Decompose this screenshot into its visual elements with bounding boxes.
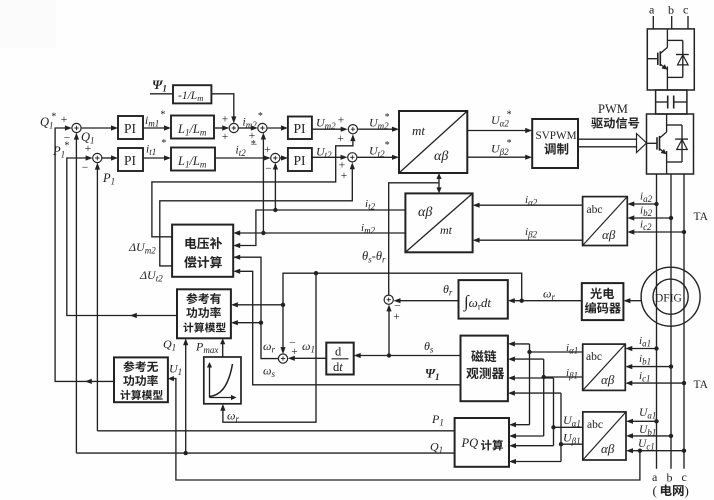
label it1* [146, 138, 166, 157]
wire Q1 feedback riser into S1 [74, 133, 79, 454]
label omega_1 [302, 339, 315, 355]
svg-text:PI: PI [124, 121, 137, 136]
label im2 measured [361, 222, 376, 236]
wire Ua2* to SVPWM [467, 128, 532, 133]
wire U_beta1 to observer and PQ [508, 391, 583, 465]
svg-text:b: b [667, 471, 673, 485]
wire DFIG to encoder [623, 298, 641, 303]
node Uc1 tap [682, 449, 686, 453]
wire rotor phase line b vertical [670, 174, 672, 469]
node Ua1 tap [654, 419, 658, 423]
wire i_alpha1 to observer and PQ [508, 341, 583, 427]
summing junction S6 [337, 125, 357, 145]
svg-text:*: * [507, 110, 512, 121]
svg-text:): ) [685, 483, 689, 498]
wire Q1* from reactive-power model up to S1 [55, 125, 114, 384]
label im1* [145, 110, 165, 129]
wire PWM hollow arrow to rotor-side converter [578, 134, 647, 153]
block mt to alphabeta transform U [399, 111, 467, 173]
wire im2 from transform to compensation input [233, 230, 405, 235]
node omega_r branch [520, 299, 524, 303]
machine DFIG [641, 267, 700, 326]
wire -1/Lm output to summing junction S3 [211, 94, 236, 124]
wire rotor phase line a vertical [656, 174, 658, 469]
node Ub1 tap [669, 434, 673, 438]
block flux observer [461, 336, 508, 402]
node ib1 tap [669, 364, 673, 368]
block voltage compensation calc [172, 225, 233, 277]
svg-text:b: b [668, 3, 674, 17]
svg-text:+: + [61, 114, 68, 126]
label ic1 [639, 370, 651, 384]
svg-text:TA: TA [694, 379, 709, 391]
svg-text:*: * [507, 138, 512, 149]
wire S5 to PI4 [280, 155, 288, 160]
wire P1 feedback riser into S2 [95, 163, 100, 431]
wire it2 feedback riser into S5 [273, 163, 278, 213]
block PI4 [288, 148, 312, 171]
label im2* [243, 111, 263, 130]
summing junction S4 [249, 123, 267, 151]
block PI1 [118, 116, 143, 139]
svg-text:mt: mt [412, 123, 425, 138]
wire PI2 to L1/Lm row2 [143, 155, 171, 160]
wire im2 feedback riser into S4 [261, 133, 266, 236]
node ic1 tap [682, 381, 686, 385]
label omega_r at S_omega [263, 339, 275, 355]
svg-text:αβ: αβ [601, 372, 615, 387]
label P1 feedback at S2 [102, 171, 115, 187]
wire dUt2 from compensation block to S7 [160, 162, 355, 266]
summing junction S7 [339, 153, 357, 182]
wire ic1 to abc-alphabeta stator [625, 381, 684, 386]
svg-text:+: + [338, 115, 345, 127]
wire U1 from grid voltage down to reactive model [168, 376, 642, 480]
label i_beta2 [525, 226, 538, 240]
label Q1 feedback at S1 [81, 130, 95, 146]
wire i_beta1 to observer and PQ [508, 357, 583, 439]
label Ub2* output [491, 138, 512, 157]
svg-text:DFIG: DFIG [655, 293, 682, 305]
block integrator of omega_r [459, 280, 508, 319]
label phase c top [683, 3, 688, 17]
label PWM drive signal [591, 102, 639, 129]
label ib2 [640, 205, 653, 219]
wire S1 to PI1 [81, 125, 118, 130]
block -1/Lm [173, 85, 211, 103]
summing junction S_omega [278, 338, 297, 364]
svg-text:αβ: αβ [434, 149, 448, 164]
label P1* reference [52, 141, 69, 160]
svg-text:−: − [82, 162, 89, 174]
label U1 into reactive model [169, 362, 182, 378]
svg-text:+: + [85, 143, 92, 155]
label theta_r [443, 282, 453, 298]
label Q1 into active model [163, 337, 176, 353]
block rotor-side converter with IGBT and diode [647, 114, 694, 175]
label Um2 and plus sign [316, 115, 344, 132]
wire S6 to mt-alphabeta transform [358, 127, 399, 132]
block SVPWM modulator [532, 119, 578, 168]
wire ia1 to abc-alphabeta stator [625, 346, 656, 351]
svg-text:αβ: αβ [602, 227, 616, 242]
wire omega_1 ddt to S_omega [288, 356, 327, 361]
svg-text:SVPWM: SVPWM [536, 130, 577, 142]
wire PI4 to S7 [312, 155, 348, 160]
wire S3 to S4 [238, 125, 257, 130]
wire grid phase stub c top [687, 16, 689, 29]
block PI3 [288, 117, 312, 140]
label ib1 [639, 353, 651, 367]
summing junction S2 [82, 143, 102, 174]
label i_beta1 [566, 367, 578, 381]
svg-text:*: * [160, 110, 165, 121]
label thetas minus thetar [362, 249, 386, 265]
node ic2 tap [682, 230, 686, 234]
block L1/Lm row1 [171, 116, 214, 139]
block d/dt differentiator [326, 343, 353, 375]
label ia1 [639, 335, 651, 349]
label theta_s [424, 339, 434, 355]
wire grid phase stub b top [671, 16, 673, 29]
wire ic2 to abc-alphabeta rotor [627, 229, 684, 234]
label omega_r from encoder [543, 287, 555, 303]
label Uc1 [638, 438, 655, 452]
summing junction S_theta [384, 295, 401, 323]
label omega_s [263, 364, 275, 380]
label TA rotor side [694, 211, 709, 223]
block abc to alphabeta stator currents [583, 344, 626, 390]
wire U_alpha1 to observer and PQ [508, 375, 583, 448]
svg-text:−: − [265, 163, 272, 175]
block photoelectric encoder [582, 283, 624, 320]
wire Q1 trunk from PQ to riser [76, 452, 454, 454]
svg-text:abc: abc [587, 419, 603, 431]
label i_alpha2 [525, 194, 538, 208]
wire Q1 riser into active model [183, 338, 188, 455]
label ic2 [640, 219, 652, 233]
summing junction S1 [61, 114, 81, 145]
svg-text:(: ( [653, 483, 657, 498]
svg-text:+: + [222, 114, 229, 126]
svg-text:+: + [393, 311, 400, 323]
wire ib2 to abc-alphabeta rotor [627, 215, 671, 220]
label Psi1 [152, 77, 167, 94]
wire Psi1 stub into -1/Lm [150, 93, 173, 95]
svg-text:αβ: αβ [418, 205, 432, 220]
svg-text:*: * [51, 112, 56, 123]
block reactive power reference model [114, 357, 168, 402]
label Ua1 [639, 407, 656, 421]
label dUt2 [139, 268, 163, 284]
wire omega_r feedback to S_omega and active model [220, 271, 521, 422]
node ib2 tap [669, 216, 673, 220]
block L1/Lm row2 [171, 148, 215, 171]
block Pmax-omega curve [204, 357, 241, 404]
summing junction S3 [222, 114, 239, 144]
summing junction S5 [264, 144, 280, 175]
label Ut2 [316, 145, 332, 161]
label it2* [236, 139, 256, 158]
svg-text:*: * [161, 138, 166, 149]
svg-text:PI: PI [124, 153, 137, 168]
wire i_alpha2 to alphabeta-mt [473, 203, 583, 208]
svg-text:∫ωrdt: ∫ωrdt [463, 292, 491, 312]
svg-text:d: d [335, 345, 342, 359]
block DC-link capacitor [656, 90, 687, 114]
block PI2 [118, 148, 143, 171]
svg-text:c: c [683, 3, 688, 17]
svg-text:*: * [385, 112, 390, 123]
wire rotor phase line c vertical [683, 174, 685, 469]
svg-text:*: * [251, 139, 256, 150]
svg-text:αβ: αβ [601, 441, 615, 456]
block grid-side converter with IGBT and diode [647, 29, 694, 90]
label Q1* reference [40, 112, 56, 131]
svg-text:+: + [341, 170, 348, 182]
block abc to alphabeta voltages [583, 412, 626, 460]
svg-text:abc: abc [586, 351, 602, 363]
svg-text:+: + [222, 131, 229, 143]
wire P1 trunk from PQ to riser [97, 430, 454, 432]
wire it2 from transform to S5 riser and compensation [233, 210, 405, 248]
svg-text:abc: abc [587, 204, 603, 216]
wire Ub1 to abc-alphabeta voltages [626, 433, 671, 438]
wire L1/Lm to S3 [214, 125, 229, 130]
wire S7 to mt-alphabeta transform [358, 155, 400, 160]
svg-text:TA: TA [694, 211, 709, 223]
wire Uc1 to abc-alphabeta voltages [626, 448, 684, 453]
svg-text:a: a [652, 470, 658, 484]
wire PI1 to L1/Lm block [143, 125, 171, 130]
label phase a top [649, 3, 655, 17]
wire i_beta2 to alphabeta-mt [473, 238, 583, 243]
svg-text:c: c [682, 470, 687, 484]
wire S2 to PI2 [102, 155, 118, 160]
svg-text:*: * [385, 140, 390, 151]
label U_alpha1 [563, 413, 581, 429]
svg-text:PWM: PWM [598, 102, 628, 116]
block abc to alphabeta rotor currents [583, 197, 628, 246]
label P1 output of PQ [431, 412, 444, 428]
node ia1 tap [654, 346, 658, 350]
wire L1/Lm row2 to S5 [215, 155, 271, 160]
node ia2 tap [654, 202, 658, 206]
wire omega_s to compensation and active model [231, 255, 279, 359]
wire Ua1 to abc-alphabeta voltages [626, 419, 657, 424]
label Ua2* output [491, 110, 512, 129]
svg-text:dt: dt [333, 360, 343, 374]
wire ia2 to abc-alphabeta rotor [627, 201, 656, 206]
block alphabeta to mt transform currents [405, 193, 472, 252]
wire S4 to PI3 [267, 125, 288, 130]
label Psi1 observer output [425, 367, 440, 383]
wire theta_r integrator to S_theta [394, 298, 459, 303]
label Q1 output of PQ [430, 440, 443, 456]
wire Psi1 observer to compensation [233, 269, 460, 385]
svg-text:+: + [291, 346, 298, 358]
svg-text:a: a [649, 3, 655, 17]
label Ub1 [639, 424, 656, 438]
svg-text:PI: PI [294, 153, 307, 168]
wire PI3 to S6 [312, 127, 348, 132]
block PQ calculator [455, 418, 509, 467]
wire grid phase stub a top [652, 16, 654, 29]
label omega_r into curve [227, 409, 239, 425]
svg-text:PQ: PQ [461, 436, 479, 450]
svg-text:mt: mt [440, 223, 453, 237]
label phase b top [668, 3, 674, 17]
wire Ub2* to SVPWM [467, 155, 532, 160]
svg-text:PI: PI [294, 121, 307, 136]
svg-text:+: + [337, 133, 344, 145]
wire omega_r encoder to integrator [508, 298, 582, 303]
wire Pmax curve to active model [220, 338, 225, 357]
block active power reference model [177, 289, 231, 338]
label U_beta1 [563, 431, 581, 447]
svg-text:*: * [64, 141, 69, 152]
svg-text:*: * [258, 111, 263, 122]
wire theta_s observer to ddt and S_theta [354, 304, 461, 358]
wire ib1 to abc-alphabeta stator [625, 364, 671, 369]
label phase a bottom [652, 470, 658, 484]
label Ut2* output [369, 140, 390, 159]
label it2 measured [365, 198, 376, 212]
label Um2* output [369, 112, 390, 131]
label ia2 [640, 191, 653, 205]
label TA stator side [694, 379, 709, 391]
label Pmax [195, 340, 218, 356]
wire P1* from active-power model up to S2 [67, 155, 177, 318]
wire dUm2 from compensation block to S6 [152, 134, 356, 237]
label phase b bottom [667, 471, 673, 485]
label i_alpha1 [566, 342, 578, 356]
wire rotation angle into transforms [389, 173, 442, 295]
svg-text:+: + [264, 144, 271, 156]
label dUm2 [128, 240, 156, 256]
label phase c bottom [682, 470, 687, 484]
label grid name [653, 483, 689, 498]
